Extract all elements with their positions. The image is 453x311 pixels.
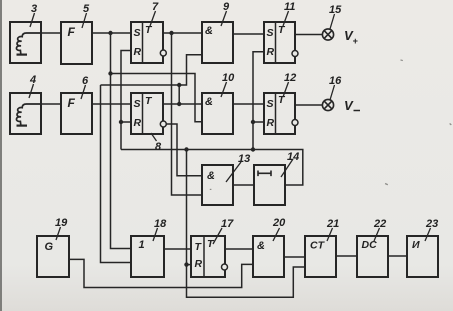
svg-text:&: &	[205, 96, 213, 108]
ref number 4 with tick	[29, 74, 36, 98]
flip-flop 8	[131, 93, 163, 134]
svg-text:И: И	[412, 239, 420, 251]
letters S T R in FF12	[267, 94, 287, 129]
wire FF8 output to AND 10	[163, 103, 202, 105]
generator G block 19	[37, 236, 69, 277]
node reset bus at x186.5	[184, 147, 188, 151]
svg-text:10: 10	[222, 72, 235, 84]
ref number 5 with tick	[82, 3, 90, 28]
ref number 3 with tick	[30, 3, 37, 27]
ref number 22 with tick	[373, 218, 386, 241]
flip-flop 12	[264, 93, 295, 134]
node FF8 R branch	[119, 120, 123, 124]
svg-text:F: F	[68, 96, 76, 110]
wire block3 to block5	[41, 32, 61, 34]
svg-text:8: 8	[155, 141, 162, 153]
node on cross line	[177, 83, 181, 87]
ref number 15 with tick	[329, 4, 342, 29]
wire OR18 to FF17 T input	[164, 248, 191, 250]
wire FF7 output to AND 9	[163, 32, 202, 34]
node FF17 R branch	[184, 262, 188, 266]
svg-text:G: G	[45, 241, 54, 253]
wire decoder 22 to indicator 23	[388, 255, 407, 257]
ref number 9 with tick	[221, 1, 230, 26]
node channel-1 branch	[108, 71, 112, 75]
shaper F block 5	[61, 22, 92, 64]
inversion bubble FF11	[292, 51, 298, 57]
reset riser to FF7 R and FF8 R	[121, 51, 131, 150]
svg-text:17: 17	[221, 218, 234, 230]
node reset bus at x253	[251, 147, 255, 151]
svg-text:CT: CT	[310, 240, 326, 252]
ref number 7 with tick	[150, 1, 159, 26]
svg-text:4: 4	[29, 74, 36, 86]
letters S T R in FF7	[134, 24, 154, 58]
ref number 8 with tick	[151, 133, 162, 153]
letters S T R in FF8	[134, 95, 154, 129]
wire to FF17 R input	[187, 264, 192, 266]
ref number 18 with tick	[153, 218, 167, 241]
reset bus wire	[121, 150, 303, 186]
svg-text:13: 13	[238, 153, 250, 165]
svg-text:11: 11	[284, 1, 295, 13]
svg-text:S: S	[134, 27, 141, 39]
svg-text:S: S	[134, 98, 141, 110]
AND gate 10	[202, 93, 233, 134]
svg-text:3: 3	[31, 3, 37, 15]
svg-text:6: 6	[82, 75, 89, 87]
ref number 6 with tick	[81, 75, 89, 99]
node FF12 R branch	[251, 120, 255, 124]
wire FF11 to lamp 15	[295, 34, 322, 36]
wire generator G to AND20 lower input	[69, 259, 253, 287]
coil symbol in block 4	[16, 104, 41, 125]
AND gate 9	[202, 22, 233, 63]
inversion bubble FF17	[222, 264, 228, 270]
svg-text:&: &	[207, 170, 215, 182]
flip-flop 12 divider	[275, 93, 277, 134]
svg-text:22: 22	[373, 218, 386, 230]
wire FF8 Q to AND9 lower input	[101, 55, 203, 104]
inversion bubble FF12	[292, 120, 298, 126]
svg-text:F: F	[68, 25, 76, 39]
inversion bubble FF7	[160, 50, 166, 56]
wire down to OR18 lower input	[101, 85, 132, 263]
svg-text:+: +	[353, 36, 359, 46]
wire AND20 to counter 21	[284, 256, 305, 258]
wire AND13 to one-shot 14	[233, 184, 254, 186]
wire AND10 to FF12 S	[233, 103, 264, 105]
flip-flop 7	[131, 22, 163, 63]
sensor block 4	[10, 93, 41, 134]
svg-text:R: R	[267, 117, 275, 129]
ref number 16 with tick	[329, 75, 342, 100]
node on FF8 output	[177, 102, 181, 106]
letters T R T in FF17	[195, 238, 216, 270]
ref number 10 with tick	[221, 72, 235, 97]
wire channel-1 branch to AND10 lower input	[111, 74, 203, 122]
paper specks	[210, 59, 452, 190]
OR gate 18	[131, 236, 164, 277]
svg-text:R: R	[134, 46, 142, 58]
wire FF12 to lamp 16	[295, 104, 322, 106]
wire FF7 Q down to AND13 lower input	[172, 33, 203, 195]
coil symbol in block 3	[16, 33, 41, 54]
svg-text:9: 9	[223, 1, 230, 13]
lamp 16	[322, 99, 333, 110]
svg-text:V: V	[344, 98, 354, 113]
svg-text:1: 1	[139, 239, 145, 251]
AND gate 13	[202, 165, 233, 205]
wire FF8 inverse output to AND13 upper input	[165, 124, 202, 176]
svg-text:21: 21	[326, 218, 339, 230]
svg-text:&: &	[205, 25, 213, 37]
reset distribution riser	[187, 150, 306, 298]
ref number 20 with tick	[272, 217, 286, 241]
svg-text:7: 7	[152, 1, 159, 13]
svg-text:14: 14	[287, 151, 299, 163]
wire block4 to block6	[41, 103, 61, 105]
flip-flop 11 divider	[275, 22, 277, 63]
wire block5 to FF7 S input	[92, 32, 131, 34]
svg-text:5: 5	[83, 3, 90, 15]
flip-flop 11	[264, 22, 295, 63]
lamp 15	[322, 29, 333, 40]
svg-text:23: 23	[425, 218, 438, 230]
ref number 13 with tick	[226, 153, 250, 182]
svg-text:S: S	[267, 98, 274, 110]
AND gate 20	[253, 236, 284, 277]
svg-text:S: S	[267, 27, 274, 39]
one-shot pulse symbol in block 14	[258, 171, 271, 177]
wire counter 21 to decoder 22	[336, 255, 357, 257]
letters S T R in FF11	[267, 24, 287, 58]
ref number 19 with tick	[55, 217, 68, 240]
decoder DC block 22	[357, 236, 388, 277]
one-shot block 14	[254, 165, 285, 205]
wire FF17 to AND20 upper input	[225, 248, 253, 250]
flip-flop 17	[191, 236, 225, 277]
ref number 23 with tick	[425, 218, 438, 241]
svg-text:15: 15	[329, 4, 342, 16]
ref number 11 with tick	[283, 1, 295, 26]
node on channel-1 line	[108, 31, 112, 35]
wire AND9 to FF11 S	[233, 33, 264, 35]
flip-flop 17 divider	[203, 236, 205, 277]
channel-1 riser to OR 18	[111, 33, 132, 249]
svg-text:12: 12	[284, 72, 296, 84]
sensor block 3	[10, 22, 41, 63]
wire block6 to FF8 S input	[92, 103, 131, 105]
svg-text:&: &	[257, 240, 265, 252]
svg-text:19: 19	[55, 217, 68, 229]
svg-text:16: 16	[329, 75, 342, 87]
svg-text:20: 20	[272, 217, 286, 229]
flip-flop 7 divider	[142, 22, 144, 63]
flip-flop 8 divider	[142, 93, 144, 134]
ref number 12 with tick	[283, 72, 296, 97]
riser FF11 R and FF12 R	[253, 52, 264, 150]
counter CT block 21	[305, 236, 336, 277]
indicator block 23	[407, 236, 438, 277]
svg-text:R: R	[267, 46, 275, 58]
svg-text:R: R	[195, 258, 203, 270]
svg-text:18: 18	[154, 218, 167, 230]
ref number 21 with tick	[326, 218, 339, 241]
ref number 14 with tick	[281, 151, 299, 177]
node on FF7 output	[169, 31, 173, 35]
ref number 17 with tick	[213, 218, 234, 244]
shaper F block 6	[61, 93, 92, 134]
svg-text:R: R	[134, 117, 142, 129]
scan edge left	[0, 0, 2, 311]
inversion bubble FF8	[160, 121, 166, 127]
